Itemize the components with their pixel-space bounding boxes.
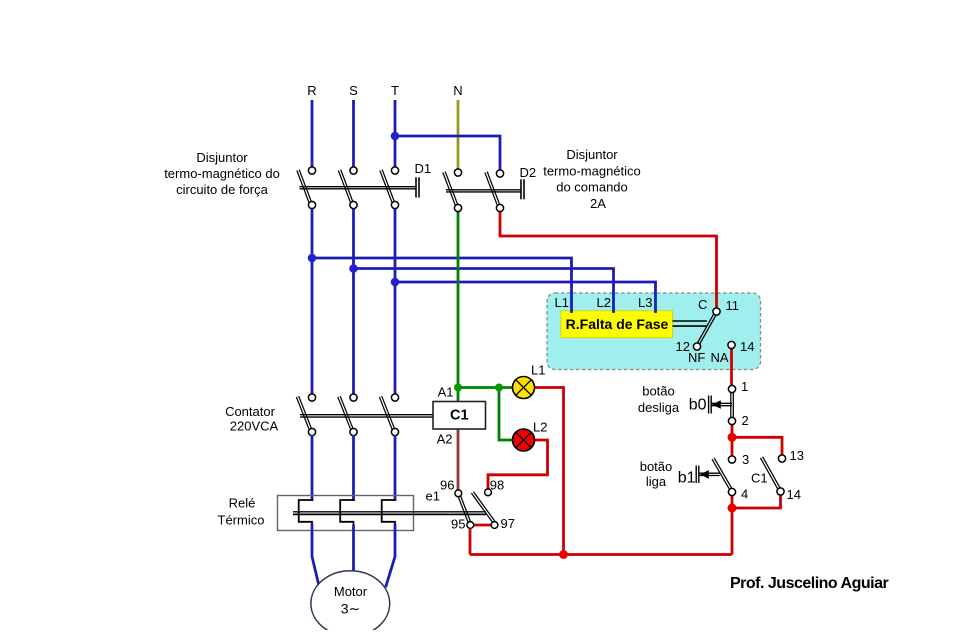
breaker D1 pole3 blade (380, 170, 393, 203)
svg-text:L3: L3 (638, 295, 652, 310)
contact 96 terminal (455, 490, 462, 497)
relay changeover blade C-12 (698, 312, 717, 347)
breaker D2 pole1 blade (443, 172, 456, 205)
wire tap L2 to phase failure relay (354, 269, 614, 312)
svg-text:R: R (307, 83, 316, 98)
svg-text:Contator: Contator (225, 404, 276, 419)
contactor pole2 terminals (350, 394, 357, 401)
svg-text:e1: e1 (426, 489, 440, 504)
contact 95 terminal (467, 522, 474, 529)
junction bottom bus (559, 550, 568, 559)
svg-text:R.Falta de Fase: R.Falta de Fase (566, 316, 669, 332)
lamp L2 (red) (513, 429, 535, 451)
svg-text:220VCA: 220VCA (230, 419, 279, 434)
svg-text:3∼: 3∼ (341, 601, 361, 617)
svg-text:4: 4 (741, 487, 748, 502)
pushbutton b0 actuator rod (712, 402, 733, 404)
contactor C1 pole2 blade (338, 397, 351, 430)
overload contact e1 NO blade 97-98 (471, 493, 493, 523)
breaker D1 pole3 terminals (391, 167, 398, 174)
svg-text:botão: botão (642, 384, 675, 399)
wire contactor to relay pole1 (311, 435, 314, 501)
svg-text:Disjuntor: Disjuntor (196, 150, 248, 165)
thermal relay heater element pole1 (299, 500, 312, 526)
breaker D1 pole1 terminals (308, 167, 315, 174)
breaker D2 pole1 terminals (454, 169, 461, 176)
svg-text:C1: C1 (450, 408, 469, 424)
svg-text:L2: L2 (533, 420, 547, 435)
svg-text:termo-magnético do: termo-magnético do (164, 166, 280, 181)
pushbutton b1 actuator rod (700, 472, 720, 474)
svg-text:14: 14 (740, 339, 754, 354)
wire tap L1 to phase failure relay (312, 258, 572, 312)
svg-text:Disjuntor: Disjuntor (566, 147, 618, 162)
svg-text:Prof. Juscelino Aguiar: Prof. Juscelino Aguiar (730, 575, 888, 592)
relay contact 12 NF (693, 343, 700, 350)
contact 3 terminal (728, 456, 735, 463)
svg-text:C: C (698, 297, 707, 312)
svg-text:L2: L2 (597, 295, 611, 310)
pushbutton b1 contact blade (712, 459, 731, 493)
wire relay NA 14 to button contact 1 (red) (730, 348, 733, 386)
svg-text:botão: botão (640, 459, 673, 474)
contactor coil C1 box (433, 402, 486, 430)
wire seal contact 14 to node 4 (red) (732, 495, 781, 509)
contactor C1 pole1 blade (296, 397, 309, 430)
wire green drop to lamp L2 (499, 388, 513, 441)
wire branch to seal contact 13 (red) (732, 437, 782, 455)
wire D1 pole2 to contactor (352, 208, 355, 395)
svg-text:Relé: Relé (229, 496, 256, 511)
wire contact 95 to bus (red) (469, 528, 472, 555)
wire contactor to relay pole2 (352, 435, 355, 501)
pushbutton b0 contact blade (730, 392, 732, 417)
breaker D1 pole1 blade (297, 170, 310, 203)
wire contactor to relay pole3 (394, 435, 397, 501)
svg-text:C1: C1 (751, 471, 768, 486)
wire relay to motor middle (352, 525, 355, 572)
svg-text:circuito de força: circuito de força (176, 182, 269, 197)
breaker D2 handle end bar (520, 179, 522, 199)
breaker D1 pole2 terminals (350, 167, 357, 174)
breaker D2 pole2 terminals (496, 170, 503, 177)
junction T tap (391, 278, 400, 287)
phase-failure relay enclosure (cyan box) (547, 293, 761, 370)
contact 2 terminal (728, 417, 735, 424)
thermal relay trip bar (293, 511, 486, 513)
wire phase R drop (311, 100, 314, 168)
contactor C1 pole3 blade (379, 397, 392, 430)
wire relay to motor right (386, 525, 395, 586)
pushbutton b1 button bar (695, 466, 697, 484)
svg-text:desliga: desliga (638, 400, 680, 415)
wire D1 pole1 to contactor (311, 208, 314, 395)
thermal relay box (278, 496, 414, 531)
wire green branch to lamps (458, 386, 513, 389)
contact 13 terminal (778, 455, 785, 462)
wire T to D2 branch (395, 136, 500, 170)
wire contact 2 to contact 3 (red) (731, 424, 734, 457)
relay contact 14 NA (728, 341, 735, 348)
contactor pole3 terminals (391, 394, 398, 401)
wire tap L3 to phase failure relay (395, 282, 656, 312)
junction S tap (349, 264, 358, 273)
svg-text:L1: L1 (555, 295, 569, 310)
svg-text:97: 97 (501, 516, 515, 531)
wire D2 phase to relay contact C (red) (500, 211, 717, 309)
contactor pole1 terminals (308, 394, 315, 401)
svg-text:do comando: do comando (556, 180, 628, 195)
svg-text:14: 14 (787, 487, 801, 502)
wire coil A2 to contact 96 (dark red) (457, 429, 460, 491)
svg-text:13: 13 (790, 448, 804, 463)
svg-text:3: 3 (742, 452, 749, 467)
junction node 2-3-13 (728, 433, 737, 442)
motor M1 3-phase (311, 571, 390, 635)
wire lamp L1 to bottom bus (red) (535, 388, 564, 555)
thermal relay heater element pole3 (382, 500, 395, 526)
wire contact 4 down to bus (red) (731, 495, 734, 555)
wire lamp L2 to contact 98 (red) (488, 440, 548, 489)
wire relay to motor left (312, 525, 319, 586)
contact 97 terminal (491, 522, 498, 529)
wire link 95 to 97 (red) (474, 524, 492, 527)
lamp L1 (yellow) (513, 377, 535, 399)
contact 98 terminal (485, 489, 492, 496)
svg-text:1: 1 (741, 379, 748, 394)
breaker D1 linkage bar (300, 186, 416, 188)
breaker D1 pole2 blade (338, 170, 351, 203)
relay contact C 11 (713, 308, 720, 315)
wire phase T drop (394, 100, 397, 168)
junction A1 node (454, 384, 462, 392)
pushbutton b0 button bar (708, 396, 710, 414)
svg-text:D1: D1 (415, 161, 432, 176)
wire neutral N drop (457, 100, 460, 169)
junction lamp node (495, 384, 503, 392)
breaker D1 handle end bar (415, 177, 417, 197)
phase failure relay label box R.Falta de Fase (561, 311, 673, 338)
svg-text:A1: A1 (438, 385, 454, 400)
svg-text:T: T (391, 83, 399, 98)
svg-text:11: 11 (726, 298, 740, 313)
junction node 4-14 (728, 504, 737, 513)
svg-text:b0: b0 (689, 397, 707, 414)
svg-text:2A: 2A (590, 196, 606, 211)
svg-text:liga: liga (646, 474, 667, 489)
overload contact e1 NC blade 96-95 (457, 494, 469, 525)
svg-text:Térmico: Térmico (218, 513, 265, 528)
svg-text:S: S (349, 83, 358, 98)
svg-text:termo-magnético: termo-magnético (543, 164, 641, 179)
wire bottom control bus (red) (470, 553, 732, 556)
svg-text:NF: NF (688, 350, 705, 365)
breaker D2 pole2 blade (485, 172, 498, 205)
svg-text:NA: NA (711, 350, 729, 365)
wire D2 neutral to coil A1 (green) (457, 211, 460, 402)
svg-text:L1: L1 (531, 363, 545, 378)
svg-text:Motor: Motor (334, 584, 368, 599)
svg-text:A2: A2 (437, 432, 453, 447)
svg-text:96: 96 (440, 478, 454, 493)
wire D1 pole3 to contactor (394, 208, 397, 395)
junction R tap (308, 254, 317, 263)
svg-text:b1: b1 (678, 470, 696, 487)
wire phase S drop (352, 100, 355, 168)
svg-text:D2: D2 (520, 165, 537, 180)
breaker D2 linkage bar (446, 189, 521, 191)
junction T branch (391, 132, 400, 141)
contact 14 terminal (777, 488, 784, 495)
svg-text:98: 98 (490, 478, 504, 493)
contact 1 terminal (728, 385, 735, 392)
contact 4 terminal (728, 488, 735, 495)
relay output linkage (double line) (673, 320, 708, 322)
thermal relay heater element pole2 (340, 500, 353, 526)
svg-text:N: N (453, 83, 462, 98)
svg-text:2: 2 (742, 413, 749, 428)
contactor linkage bar to coil (300, 414, 433, 416)
svg-text:95: 95 (451, 517, 465, 532)
seal contact C1 blade (760, 458, 779, 492)
